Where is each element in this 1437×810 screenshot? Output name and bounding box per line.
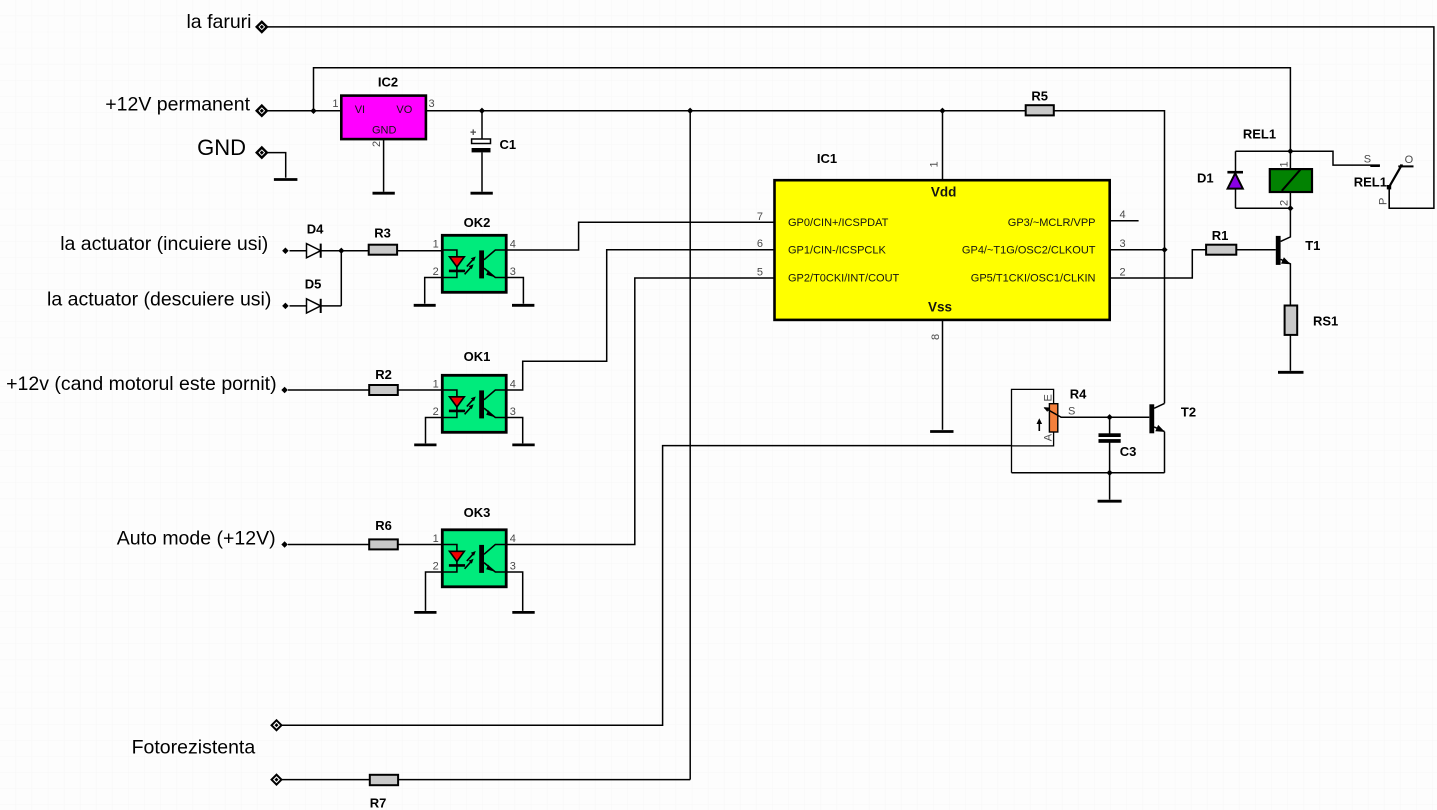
svg-text:T2: T2 (1181, 404, 1196, 419)
svg-text:OK1: OK1 (464, 349, 491, 364)
svg-text:GP4/~T1G/OSC2/CLKOUT: GP4/~T1G/OSC2/CLKOUT (962, 244, 1096, 256)
wire T1 emitter to RS1 (1281, 259, 1291, 305)
svg-text:D4: D4 (307, 221, 324, 236)
microcontroller IC1 (757, 151, 1126, 340)
ground (512, 611, 534, 614)
svg-text:la faruri: la faruri (186, 11, 251, 33)
svg-text:REL1: REL1 (1354, 175, 1387, 190)
svg-text:+12v (cand motorul este pornit: +12v (cand motorul este pornit) (6, 373, 276, 395)
optocoupler OK2 (433, 215, 516, 292)
svg-text:GP5/T1CKI/OSC1/CLKIN: GP5/T1CKI/OSC1/CLKIN (971, 273, 1096, 285)
resistor R6 (369, 518, 398, 549)
svg-text:4: 4 (510, 239, 516, 251)
wire OK2 pin2 to ground (425, 278, 443, 304)
ground (1278, 371, 1304, 374)
svg-text:Auto mode (+12V): Auto mode (+12V) (117, 527, 276, 549)
svg-text:IC2: IC2 (378, 75, 398, 90)
wire R4 A terminal (1012, 432, 1054, 446)
svg-text:C3: C3 (1120, 444, 1137, 459)
svg-text:GP2/T0CKI/INT/COUT: GP2/T0CKI/INT/COUT (788, 273, 900, 285)
capacitor C1 (470, 127, 516, 152)
transistor T2 (1149, 404, 1196, 433)
svg-text:+: + (470, 127, 476, 139)
svg-text:4: 4 (510, 379, 516, 391)
ground (414, 443, 436, 446)
ground (414, 304, 436, 307)
wire OK3 pin2 to ground (426, 572, 443, 611)
svg-text:S: S (1068, 406, 1075, 418)
terminal descuiere (282, 303, 289, 310)
svg-text:+12V permanent: +12V permanent (105, 94, 250, 116)
svg-text:E: E (1042, 394, 1054, 401)
wire actuator incuiere row (290, 250, 443, 252)
svg-text:4: 4 (510, 533, 516, 545)
wire switch P stub (1388, 187, 1390, 208)
wire R7 row (280, 779, 690, 781)
svg-text:D5: D5 (305, 277, 322, 292)
transistor T1 (1276, 236, 1321, 265)
terminal auto mode (281, 541, 288, 548)
wire +12V to relay top (314, 68, 1291, 151)
svg-text:3: 3 (1120, 238, 1126, 250)
wire OK1 pin3 to ground (506, 418, 523, 444)
svg-text:OK2: OK2 (464, 215, 491, 230)
svg-text:8: 8 (930, 334, 942, 340)
svg-text:P: P (1378, 198, 1390, 205)
svg-text:R6: R6 (375, 518, 392, 533)
wire R4 wiper S to T2 base (1061, 416, 1150, 418)
resistor RS1 (1285, 306, 1339, 335)
svg-text:GP1/CIN-/ICSPCLK: GP1/CIN-/ICSPCLK (788, 244, 886, 256)
svg-text:VO: VO (396, 104, 412, 116)
svg-text:A: A (1042, 433, 1054, 441)
optocoupler OK1 (433, 349, 516, 432)
svg-text:3: 3 (510, 561, 516, 573)
wire T2 collector diag (1154, 403, 1164, 408)
resistor R7 (370, 775, 398, 810)
trimmer R4 (1037, 387, 1088, 442)
wire T2 emitter tail (1164, 432, 1166, 473)
node junction T2 base / C3 (1106, 414, 1112, 420)
svg-text:1: 1 (332, 98, 338, 110)
wire relay coil pins (1289, 151, 1291, 208)
svg-text:GP3/~MCLR/VPP: GP3/~MCLR/VPP (1008, 217, 1096, 229)
svg-text:RS1: RS1 (1313, 313, 1338, 328)
wire fotorezistenta top to R4 (280, 446, 1012, 726)
ground (274, 180, 1304, 613)
svg-text:Vdd: Vdd (931, 185, 957, 200)
svg-text:2: 2 (433, 266, 439, 278)
resistor R3 (369, 226, 397, 255)
terminal la faruri (257, 22, 267, 32)
wire la faruri net top (267, 27, 1434, 208)
terminal incuiere (282, 247, 289, 254)
voltage regulator IC2 (332, 75, 434, 148)
terminal GND (257, 148, 267, 158)
capacitor C3 (1099, 433, 1137, 459)
svg-text:6: 6 (757, 238, 763, 250)
node junction +12V/IC2 feed (310, 108, 316, 114)
wire OK2 pin3 to ground (506, 278, 523, 304)
relay coil REL1 (1243, 127, 1312, 207)
wire OK1 pin2 to ground (426, 418, 443, 444)
wire T2 emitter diag (1154, 427, 1164, 432)
resistor R2 (369, 367, 398, 395)
wire Vss (942, 320, 944, 430)
optocoupler OK3 (433, 505, 516, 587)
wire OK3 pin3 to ground (506, 572, 523, 611)
terminal fotorezistenta bottom (272, 775, 282, 785)
node junction relay top (1287, 148, 1293, 154)
ground (512, 443, 534, 446)
svg-text:R5: R5 (1031, 89, 1048, 104)
svg-text:3: 3 (510, 406, 516, 418)
svg-text:R1: R1 (1212, 228, 1229, 243)
svg-text:3: 3 (429, 98, 435, 110)
svg-text:GND: GND (197, 135, 246, 160)
svg-text:2: 2 (371, 141, 383, 147)
node junction GP4 rail (1161, 247, 1167, 253)
svg-text:R4: R4 (1070, 387, 1087, 402)
diode D5 (305, 277, 322, 314)
svg-text:Vss: Vss (928, 300, 952, 315)
wire IC1 pin3 (1110, 249, 1165, 251)
wire IC2 pin3 to R5 (426, 110, 1026, 112)
svg-text:5: 5 (757, 267, 763, 279)
wire R6 row (288, 544, 442, 546)
svg-text:VI: VI (355, 104, 365, 116)
resistor R5 (1026, 89, 1054, 116)
svg-text:3: 3 (510, 266, 516, 278)
svg-text:R2: R2 (375, 367, 392, 382)
wire OK2 pin4 to IC1 pin7 (506, 222, 774, 250)
svg-text:OK3: OK3 (464, 505, 491, 520)
svg-text:S: S (1364, 154, 1371, 166)
svg-text:1: 1 (1278, 161, 1290, 167)
terminal fotorezistenta top (272, 720, 282, 730)
wire OK3 pin4 to IC1 pin5 (506, 278, 774, 545)
wire OK1 pin4 to IC1 pin6 (506, 250, 774, 390)
node junction R7 rail tap (687, 108, 693, 114)
wire +12V permanent to IC2 pin1 (267, 110, 342, 112)
wire actuator descuiere row (290, 251, 342, 306)
wire C3 (1109, 417, 1111, 499)
svg-text:GND: GND (372, 124, 397, 136)
wire R5 to T2 collector (1054, 111, 1165, 404)
svg-text:1: 1 (929, 161, 941, 167)
svg-text:Fotorezistenta: Fotorezistenta (132, 737, 256, 759)
wire RS1 to ground (1289, 335, 1291, 371)
wire bottom rail to T2 emitter (1012, 472, 1165, 474)
ground (1098, 500, 1122, 503)
wire IC2 pin2 to ground (383, 139, 385, 192)
wire T1 collector (1281, 208, 1291, 241)
wire IC1 pin4 stub (1110, 220, 1139, 222)
node junction D4/D5 (338, 248, 344, 254)
switch REL1 contact (1354, 154, 1414, 205)
terminal +12v motor (281, 387, 288, 394)
svg-text:C1: C1 (500, 137, 517, 152)
svg-text:2: 2 (433, 406, 439, 418)
svg-text:2: 2 (433, 561, 439, 573)
terminal +12V permanent (257, 106, 267, 116)
svg-text:R7: R7 (370, 796, 387, 810)
wire GND terminal (267, 153, 286, 178)
svg-text:GP0/CIN+/ICSPDAT: GP0/CIN+/ICSPDAT (788, 217, 889, 229)
svg-text:2: 2 (1278, 200, 1290, 206)
wire relay contact S (1290, 151, 1380, 165)
svg-text:R3: R3 (374, 226, 391, 241)
ground (414, 611, 436, 614)
svg-text:la actuator (descuiere usi): la actuator (descuiere usi) (47, 289, 271, 311)
ground (930, 430, 953, 433)
resistor R1 (1206, 228, 1236, 255)
svg-text:1: 1 (433, 379, 439, 391)
wire R2 row (288, 389, 442, 391)
diode D4 (307, 221, 325, 257)
wire R7 to +12V vertical (689, 111, 691, 780)
svg-text:7: 7 (757, 211, 763, 223)
wire C1 (481, 111, 483, 192)
svg-text:2: 2 (1120, 267, 1126, 279)
svg-text:T1: T1 (1305, 238, 1320, 253)
wire D1 branch (1236, 151, 1291, 208)
svg-text:1: 1 (433, 239, 439, 251)
svg-text:D1: D1 (1197, 171, 1214, 186)
wire Vdd (942, 111, 944, 181)
node junction relay bottom (1287, 205, 1293, 211)
svg-text:la actuator (incuiere usi): la actuator (incuiere usi) (60, 233, 268, 255)
svg-text:1: 1 (433, 533, 439, 545)
wire R4 E terminal loop (1012, 389, 1054, 472)
node junction C1 tap (479, 108, 485, 114)
svg-text:4: 4 (1120, 209, 1126, 221)
svg-text:IC1: IC1 (817, 151, 837, 166)
wire IC1 pin2 to R1 to T1 base (1110, 250, 1276, 278)
node junction Vdd tap (939, 108, 945, 114)
ground (512, 304, 534, 307)
svg-text:O: O (1405, 154, 1414, 166)
node junction C3 ground rail (1106, 470, 1112, 476)
svg-text:REL1: REL1 (1243, 127, 1276, 142)
diode D1 (1197, 171, 1243, 189)
ground (373, 192, 395, 195)
ground (471, 192, 493, 195)
